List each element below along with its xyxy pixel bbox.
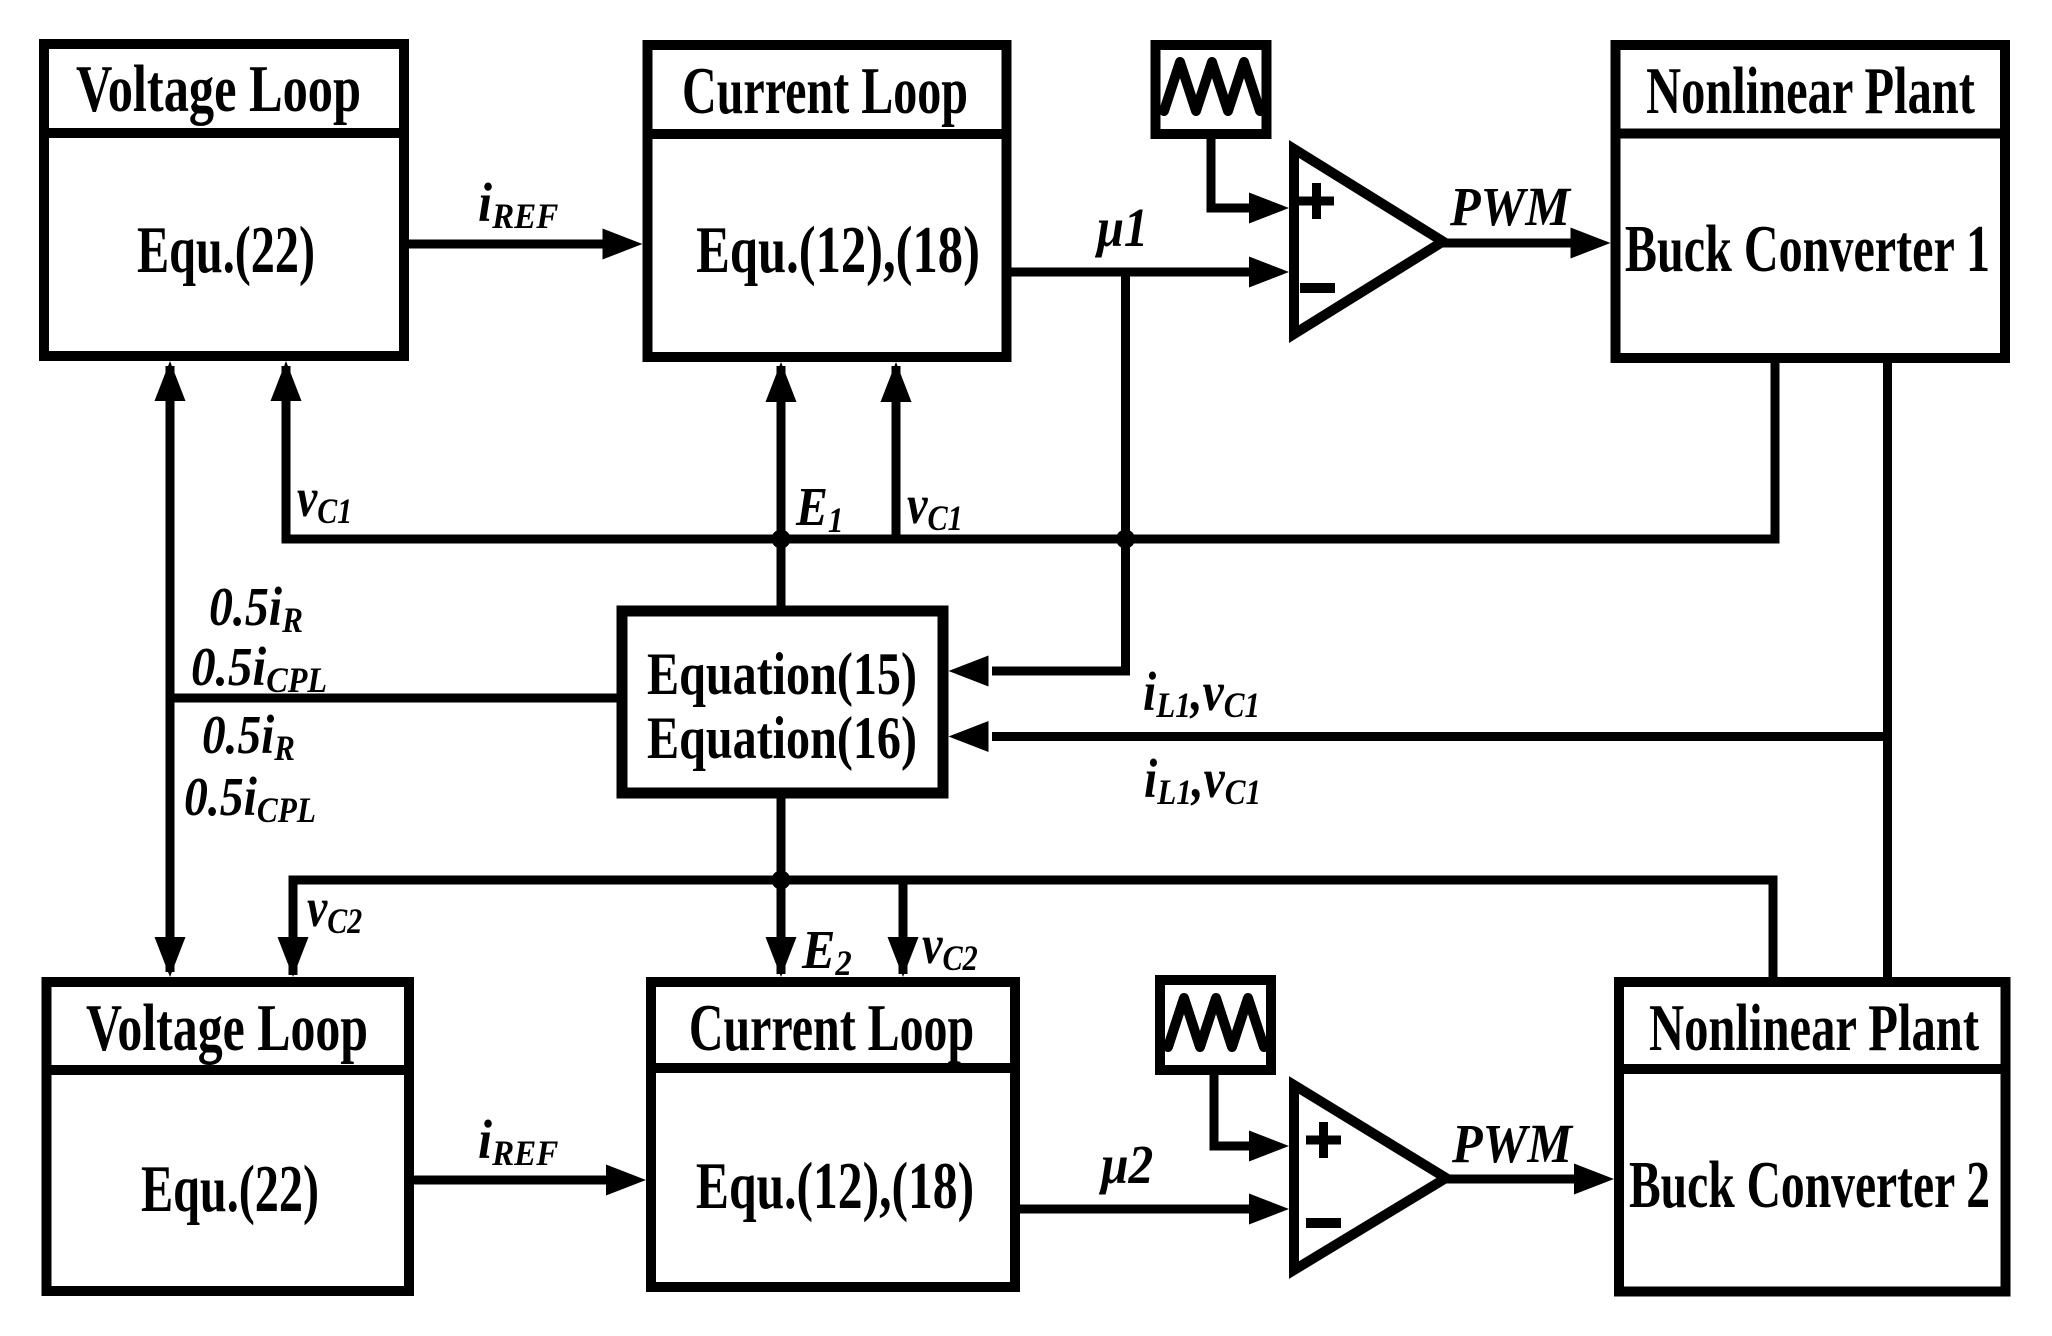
label Nonlinear Plant 1 title (1646, 53, 1975, 127)
label Current Loop 1 title (682, 53, 968, 128)
svg-text:μ1: μ1 (1094, 198, 1148, 259)
svg-text:Voltage Loop: Voltage Loop (86, 990, 368, 1065)
label iL1,vC1 lower (1144, 749, 1261, 813)
svg-text:Nonlinear Plant: Nonlinear Plant (1649, 990, 1980, 1064)
wire iREF 2: Voltage Loop 2 to Current Loop 2 (409, 1176, 608, 1185)
label Voltage Loop 1 title (76, 51, 361, 126)
label vC2 left (307, 877, 362, 942)
junction dot E2 on vC2 line (772, 871, 791, 890)
label PWM 1 (1449, 177, 1572, 238)
wire vC1 feedback: Buck Converter 1 bottom to Voltage Loop 1 bottom (286, 358, 1775, 539)
wire sawtooth 2 to comparator 2 plus input (1214, 1070, 1251, 1146)
block Voltage Loop 2 box (42, 982, 415, 1291)
sawtooth generator 1 waveform (1164, 62, 1260, 111)
block Nonlinear Plant 1 box (1611, 45, 2011, 358)
label vC2 right (922, 914, 978, 978)
junction dot mu1 drop on vC1 line (1116, 530, 1135, 549)
block Current Loop 2 box (646, 982, 1020, 1287)
wire sawtooth 1 to comparator 1 plus input (1211, 134, 1251, 208)
junction dot E1 on vC1 line (772, 530, 791, 549)
wire E1: Equation box top to Current Loop 1 bottom (777, 366, 786, 611)
label Buck Converter 2 (1629, 1147, 1990, 1222)
block Voltage Loop 1 box (39, 44, 409, 356)
svg-text:PWM: PWM (1449, 177, 1572, 238)
label Equ.(22) of Voltage Loop 1 (137, 212, 315, 287)
comparator 1 plus sign (1299, 183, 1334, 219)
label vC1 left (297, 467, 352, 532)
label mu1 (1094, 198, 1148, 259)
label Nonlinear Plant 2 title (1649, 990, 1980, 1064)
wire 0.5 split double arrow between Voltage Loop 1 and 2 (166, 366, 175, 972)
svg-text:PWM: PWM (1451, 1114, 1574, 1175)
comparator 2 triangle (1294, 1085, 1446, 1270)
label iL1,vC1 upper (1143, 662, 1260, 726)
sawtooth generator 2 waveform (1168, 998, 1264, 1047)
label vC1 right (907, 474, 963, 538)
label iREF 1 (478, 173, 558, 236)
label Equation(16) (647, 705, 917, 771)
comparator 2 minus sign (1306, 1218, 1341, 1228)
label Current Loop 2 title (689, 990, 974, 1065)
wire PWM 1: comparator 1 output to Nonlinear Plant 1 (1440, 239, 1572, 248)
label Equ.(22) of Voltage Loop 2 (141, 1151, 319, 1226)
wire iREF 1: Voltage Loop 1 to Current Loop 1 (404, 240, 604, 249)
comparator 1 triangle (1294, 149, 1443, 334)
label E1 (795, 477, 844, 541)
label Equ.(12),(18) of Current Loop 2 (696, 1148, 974, 1223)
svg-text:Current Loop: Current Loop (682, 53, 968, 128)
comparator 1 minus sign (1300, 283, 1335, 293)
wire E2: Equation box bottom to Current Loop 2 top (777, 793, 786, 974)
svg-text:Equ.(22): Equ.(22) (137, 212, 315, 287)
wire mu1 drop to Equation box upper-right input (992, 272, 1126, 671)
wire iL1,vC1 lower: Buck Converter 1 drop to Equation box lower-right input (992, 732, 1888, 741)
label PWM 2 (1451, 1114, 1574, 1175)
comparator 2 plus sign (1306, 1122, 1341, 1158)
svg-text:Equ.(12),(18): Equ.(12),(18) (696, 1148, 974, 1223)
label 0.5iR upper (209, 577, 303, 641)
label Equ.(12),(18) of Current Loop 1 (696, 212, 980, 286)
wire mu2: Current Loop 2 to comparator 2 minus input (1015, 1205, 1251, 1214)
block Current Loop 1 box (643, 45, 1012, 357)
wire 0.5iR 0.5iCPL: Equation box left output (170, 694, 622, 703)
label iREF 2 (478, 1110, 558, 1173)
label 0.5iR lower (202, 705, 295, 769)
svg-text:Voltage Loop: Voltage Loop (76, 51, 361, 126)
wire mu1: Current Loop 1 to comparator 1 minus input (1007, 268, 1252, 277)
block Equation(15)(16) box (622, 611, 943, 793)
wire PWM 2: comparator 2 output to Nonlinear Plant 2 (1443, 1175, 1576, 1184)
svg-text:μ2: μ2 (1098, 1135, 1153, 1196)
label Buck Converter 1 (1625, 211, 1990, 286)
svg-text:Buck Converter 2: Buck Converter 2 (1629, 1147, 1990, 1222)
wire vC2 branch down into Current Loop 2 (899, 880, 908, 974)
label Equation(15) (647, 641, 917, 707)
svg-text:Equation(15): Equation(15) (647, 641, 917, 707)
svg-text:Equ.(22): Equ.(22) (141, 1151, 319, 1226)
label E2 (801, 920, 852, 983)
wire vC1 branch up into Current Loop 1 (892, 366, 901, 539)
label mu2 (1098, 1135, 1153, 1196)
svg-text:Current Loop: Current Loop (689, 990, 974, 1065)
wire vC2 distribution line (293, 880, 1773, 982)
svg-text:Equation(16): Equation(16) (647, 705, 917, 771)
sawtooth generator 1 box (1156, 45, 1267, 134)
svg-text:Equ.(12),(18): Equ.(12),(18) (696, 212, 980, 286)
svg-text:Nonlinear Plant: Nonlinear Plant (1646, 53, 1975, 127)
sawtooth generator 2 box (1160, 980, 1271, 1070)
block Nonlinear Plant 2 box (1614, 982, 2011, 1292)
label 0.5iCPL upper (191, 637, 327, 701)
label Voltage Loop 2 title (86, 990, 368, 1065)
label 0.5iCPL lower (184, 767, 316, 831)
svg-text:Buck Converter 1: Buck Converter 1 (1625, 211, 1990, 286)
wire Buck Converter 1 long drop to Nonlinear Plant 2 top (1883, 358, 1892, 982)
